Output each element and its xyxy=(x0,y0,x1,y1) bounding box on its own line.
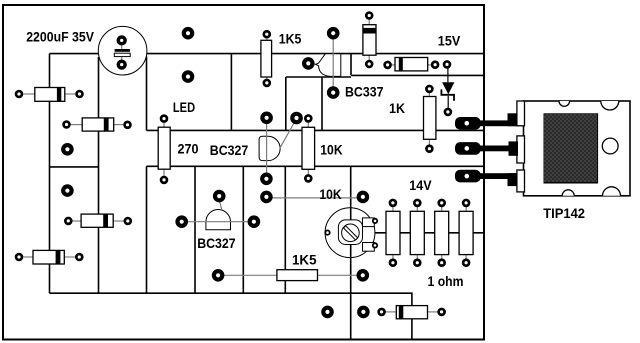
pad 1 ohm #3 top xyxy=(439,200,445,206)
svg-text:2200uF 35V: 2200uF 35V xyxy=(26,29,94,45)
pad BC327 upper emitter xyxy=(262,175,270,183)
pad capacitor negative xyxy=(118,61,125,68)
pad 1 ohm #1 bottom xyxy=(390,260,396,266)
resistor R5 15V feed xyxy=(392,58,431,71)
TIP142 mounting hole xyxy=(602,138,618,154)
wire trimmer vertical xyxy=(350,166,352,339)
pad 1 ohm #2 top xyxy=(414,200,420,206)
wire jumper link xyxy=(266,197,363,199)
wire top rail xyxy=(50,53,352,55)
pad R1 left xyxy=(16,91,22,97)
resistor 270 xyxy=(158,123,170,176)
pad R4 right xyxy=(76,254,82,260)
pad 10K bottom xyxy=(305,175,311,181)
svg-text:1K5: 1K5 xyxy=(279,30,302,46)
pad left node B xyxy=(63,186,71,194)
wire vertical from top rail xyxy=(230,54,232,131)
svg-text:1K5: 1K5 xyxy=(292,251,317,267)
TIP142 collector lead pin 2 xyxy=(455,141,518,155)
wire vertical E xyxy=(242,166,244,293)
wire capacitor left drop xyxy=(98,57,100,293)
transistor Q3 BC327 lower xyxy=(182,200,254,230)
resistor 1 ohm #1 xyxy=(386,207,400,259)
resistor 1K5 upper xyxy=(261,38,272,79)
pad BC337 emitter xyxy=(329,88,337,96)
pad 1 ohm #1 top xyxy=(390,200,396,206)
pad capacitor positive xyxy=(118,37,125,44)
resistor 1K5 lower and jumper wire xyxy=(218,270,363,281)
pad R2 left xyxy=(64,122,70,128)
wire vertical node B xyxy=(321,77,323,130)
zener diode 15V xyxy=(441,69,454,108)
pad 1K bottom xyxy=(426,146,432,152)
wire vertical C xyxy=(146,166,148,293)
pad BC327 lower collector xyxy=(178,218,186,226)
TIP142 base lead pin 1 xyxy=(455,113,518,129)
pad output node B xyxy=(359,308,367,316)
wire vertical F xyxy=(284,166,286,293)
TIP142 emitter lead pin 3 xyxy=(455,170,518,186)
svg-text:10K: 10K xyxy=(319,186,341,202)
pad 1 ohm #4 top xyxy=(463,200,469,206)
resistor R3 xyxy=(73,214,124,227)
resistor R1 xyxy=(23,88,75,102)
transistor Q4 TIP142 package xyxy=(517,101,630,196)
wire left vertical bus xyxy=(49,54,51,294)
pad trimmer pin 1 xyxy=(373,219,377,223)
pad 1 ohm #3 bottom xyxy=(439,260,445,266)
pad R1 right xyxy=(77,91,83,97)
svg-text:BC327: BC327 xyxy=(197,235,236,251)
pad R2 right xyxy=(125,122,131,128)
pad trimmer pin 3 xyxy=(325,230,329,234)
wire BC337 box top xyxy=(286,76,351,78)
pad trimmer pin 2 xyxy=(373,243,377,247)
pad zener top xyxy=(444,61,450,67)
pad BC337 base xyxy=(304,59,312,67)
pad R5 left xyxy=(385,62,391,68)
pad 270 bottom xyxy=(161,177,167,183)
pad 1K5 lower left xyxy=(214,271,222,279)
pad 1 ohm #4 bottom xyxy=(463,260,469,266)
pad 1K5 upper bottom xyxy=(264,80,270,86)
resistor R2 xyxy=(71,118,124,131)
pad node top left xyxy=(184,29,192,37)
trimmer potentiometer VR1 10K xyxy=(325,208,375,258)
wire capacitor right drop xyxy=(146,57,148,131)
pad 10K top xyxy=(305,115,311,121)
resistor 1 ohm #3 xyxy=(435,207,449,259)
pad BC327 lower base xyxy=(215,192,223,200)
pad R3 left xyxy=(65,218,71,224)
wire 15V rail xyxy=(351,54,484,76)
pad 1K5 lower right xyxy=(359,271,367,279)
svg-text:10K: 10K xyxy=(320,142,342,158)
TIP142 heatsink hatched area xyxy=(544,114,598,183)
svg-text:BC337: BC337 xyxy=(345,84,384,100)
pad R5 right xyxy=(432,62,438,68)
svg-text:TIP142: TIP142 xyxy=(543,205,585,221)
wire base rail xyxy=(147,129,484,131)
pad jumper left xyxy=(262,193,270,201)
wire mid rail left segment xyxy=(50,166,99,168)
wire mid rail xyxy=(147,165,484,167)
resistor 1 ohm #4 xyxy=(459,207,473,259)
pad output left xyxy=(379,309,385,315)
pad BC327 upper base xyxy=(292,114,300,122)
svg-text:15V: 15V xyxy=(438,32,461,48)
transistor Q1 BC337 xyxy=(312,38,341,89)
pad left node A xyxy=(63,145,71,153)
svg-text:1K: 1K xyxy=(389,100,405,116)
pad R3 right xyxy=(125,218,131,224)
transistor Q2 BC327 upper xyxy=(259,122,295,175)
resistor 1 ohm #2 xyxy=(410,207,424,259)
pad jumper right xyxy=(359,193,367,201)
svg-text:BC327: BC327 xyxy=(210,142,249,158)
pad BC337 collector xyxy=(329,29,337,37)
wire 0V bottom rail xyxy=(50,293,412,339)
pad output node A xyxy=(323,308,331,316)
pad output right xyxy=(439,309,445,315)
capacitor C1 2200uF 35V xyxy=(98,26,147,75)
pad BC327 lower emitter xyxy=(250,218,258,226)
pad D1 bottom xyxy=(366,61,372,67)
pad node mid left xyxy=(184,72,192,80)
wire top rail right segment xyxy=(351,53,484,55)
resistor 10K xyxy=(302,123,315,175)
svg-text:14V: 14V xyxy=(409,177,432,193)
pad zener bottom xyxy=(445,109,451,115)
wire vertical node A xyxy=(285,77,287,130)
pad R4 left xyxy=(16,254,22,260)
pad 1K5 upper top xyxy=(264,31,270,37)
svg-text:270: 270 xyxy=(178,140,199,156)
svg-text:LED: LED xyxy=(173,99,195,115)
resistor R6 output xyxy=(386,306,438,319)
pad 1 ohm #2 bottom xyxy=(414,260,420,266)
wire vertical D xyxy=(194,166,196,293)
pad 1K top xyxy=(426,86,432,92)
resistor 1K xyxy=(424,93,436,145)
wire 14V rail xyxy=(373,232,484,234)
pad BC327 upper collector xyxy=(262,114,270,122)
diode D1 xyxy=(363,20,376,60)
board outline xyxy=(3,5,484,340)
pad D1 top xyxy=(366,13,372,19)
pad LED anode xyxy=(161,116,167,122)
resistor R4 xyxy=(23,250,75,264)
svg-text:1 ohm: 1 ohm xyxy=(428,273,464,289)
